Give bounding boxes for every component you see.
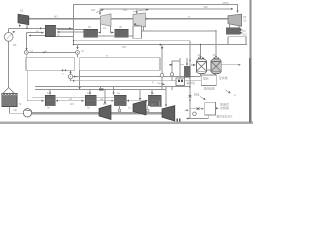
pump P1 [23, 109, 31, 117]
vessel V2 [211, 59, 221, 74]
leader arrows right cluster [225, 90, 231, 94]
wire vessel legs [200, 74, 202, 77]
wire T3 inlet drop [136, 9, 138, 14]
wire vertical x162 [161, 45, 163, 90]
svg-text:W2: W2 [91, 8, 96, 12]
wire rect A bottom to C3 [70, 70, 72, 74]
small node P3 [193, 112, 197, 116]
wire V2 out right [221, 64, 240, 66]
wire into C1 from heater lines [26, 33, 28, 50]
small node under H6 [146, 109, 149, 112]
wire drop to C2 [77, 45, 79, 50]
vessel V1 [196, 59, 206, 74]
wire T6 inlet drop [139, 90, 141, 101]
wire B3 out right [216, 107, 219, 109]
wire C2 to tank B [77, 54, 79, 57]
arrow into x190 area [185, 109, 189, 111]
wire second top line L2 [100, 8, 233, 10]
svg-text:bfp: bfp [14, 109, 18, 112]
wire H3 to R1 [128, 35, 133, 37]
valve mark on x172 [170, 64, 172, 65]
wire H1 right drain corner [56, 36, 74, 38]
svg-text:3H: 3H [119, 26, 122, 29]
svg-text:w: w [188, 15, 190, 18]
svg-text:1B: 1B [13, 43, 17, 47]
wire bridge pipe [172, 61, 180, 73]
svg-text:循环水泵房A: 循环水泵房A [217, 115, 233, 119]
wire extraction line y31 [142, 30, 217, 32]
svg-text:W1: W1 [54, 15, 58, 18]
boiler circle B1 [4, 33, 13, 42]
leader arrow at boiler [12, 31, 15, 34]
wire condensate y97 [32, 96, 45, 98]
wire heater B inlet drop [89, 90, 91, 95]
heater LP C [114, 95, 126, 106]
vessel V2 top nozzle marks [214, 57, 216, 58]
wire out H1 left lower [29, 35, 45, 37]
turbine T7 [162, 106, 175, 121]
wire C3 down [70, 79, 72, 81]
heater LP B [85, 95, 96, 106]
leader arrow W3 [133, 10, 149, 12]
heater LP A [45, 95, 55, 106]
valve on x190 [189, 95, 192, 97]
small pump on drain line [99, 89, 104, 91]
svg-text:N10: N10 [243, 34, 248, 37]
leader near T7 top [157, 83, 165, 85]
wire H1 right top line [57, 29, 83, 31]
turbine T5 [99, 105, 111, 120]
valve on tank A bottom [62, 69, 66, 71]
svg-text:N1: N1 [20, 9, 24, 13]
heater H2 [84, 29, 98, 37]
small node under H5 [118, 109, 121, 112]
svg-text:输水泵: 输水泵 [187, 81, 196, 85]
wire T2 right drop to H3 [111, 26, 114, 32]
wire boiler riser [8, 28, 10, 32]
wire T2 left drop to H2 [99, 24, 101, 32]
wire H6 inlet drop [151, 90, 153, 95]
arrows out of HX4 [241, 29, 243, 31]
node C2 [76, 51, 80, 55]
svg-text:2H: 2H [88, 26, 91, 29]
wire H1 right mid line [57, 31, 83, 33]
wire stub x172 lower [171, 87, 173, 90]
wire T7 inlet line [150, 106, 162, 108]
wire C1 to tank A [25, 54, 27, 57]
heat exchanger HB [184, 66, 190, 77]
wire V2 top drop [215, 31, 217, 58]
wire T5 inlet drop [104, 90, 106, 104]
wire T1 exhaust drop [19, 24, 21, 27]
HB top inlet arrow [186, 58, 188, 66]
valve before B3 [197, 108, 200, 110]
turbine T4 (BFPT top right) [228, 14, 242, 26]
wire tank outlet [10, 107, 24, 114]
bottom window border bar [0, 121, 253, 124]
tiny glyphs after T7 [176, 118, 178, 121]
wire y80.8 long [71, 80, 202, 82]
svg-text:W6: W6 [122, 46, 126, 49]
box R1 condenser [133, 26, 142, 38]
wire long header y44.6 [74, 44, 248, 46]
arrows at heater sides [41, 100, 44, 102]
wire T4 exhaust drop [238, 26, 240, 28]
pump node on x162 [160, 74, 164, 78]
svg-text:W3: W3 [123, 8, 128, 12]
svg-text:排水: 排水 [194, 93, 200, 97]
wire left downpipe [26, 70, 28, 101]
wire boiler downcomer [8, 41, 10, 88]
wire between vessels [207, 69, 211, 71]
wire vertical x79.6 [79, 70, 81, 89]
wire H2 to H3 drains [98, 35, 115, 37]
wire header y89.6 [35, 89, 166, 91]
wire HB to V1 [191, 64, 196, 66]
heater LP D [148, 95, 161, 106]
wire P2 down [171, 76, 173, 81]
wire T1 stub right [26, 25, 28, 29]
svg-text:加药装置: 加药装置 [204, 86, 215, 90]
wire cold reheat line y28.4 [9, 27, 74, 29]
wire B3 bottom loop [187, 115, 209, 119]
svg-text:3F: 3F [213, 54, 216, 57]
svg-text:W3: W3 [103, 103, 107, 106]
pump P2 [170, 73, 173, 76]
turbine T6 [133, 101, 146, 116]
wire x190 lower [189, 109, 191, 119]
wire header y86.6 [35, 86, 190, 88]
wire T3 left drop into R1 [134, 25, 136, 26]
wire T3 right drop [143, 27, 145, 31]
small box SB1 [176, 78, 185, 86]
wire bridge to HB [180, 64, 184, 66]
svg-text:水箱循: 水箱循 [220, 105, 229, 110]
svg-text:w: w [45, 50, 47, 53]
wire heater A inlet drop [49, 90, 51, 95]
vessel V1 top nozzle marks [198, 57, 200, 58]
wire connector x100.5 [100, 87, 102, 90]
wire into H1 left mid [27, 32, 44, 34]
wire y76.6 [73, 76, 201, 78]
wire between C1 C2 [28, 51, 75, 53]
wire T2 inlet drop [99, 9, 101, 15]
hotwell tank [2, 93, 17, 106]
heat exchanger HX4 under T4 [226, 28, 240, 35]
right window border line [249, 0, 251, 123]
turbine T3 (LP) [133, 13, 145, 27]
box water box B3 [205, 102, 216, 115]
svg-text:至水箱: 至水箱 [219, 76, 228, 80]
box dosing unit [201, 75, 216, 86]
right cluster vertical x190 [189, 41, 191, 109]
box R2 below HX4 [228, 37, 246, 45]
heater H1 [45, 25, 56, 36]
turbine T2 (IP) [100, 14, 111, 26]
node C1 [24, 51, 28, 55]
shaft line bottom [32, 112, 162, 114]
svg-text:加药: 加药 [203, 76, 209, 80]
wire left drop x180 [179, 58, 181, 78]
wire into B3 [190, 108, 204, 110]
heater H3 [115, 29, 128, 37]
wire main steam header [29, 18, 229, 20]
leader arrow W2 [96, 9, 104, 12]
wire V1 top drop [200, 45, 202, 59]
wire drain header y40.8 [74, 40, 191, 42]
wire H5 inlet drop [113, 87, 115, 95]
svg-text:w: w [106, 54, 108, 57]
turbine T1 (HP) [18, 14, 29, 25]
wire T7 inlet drop [165, 87, 167, 107]
node C3 pump [68, 74, 72, 78]
wire condensate y100.7 [27, 101, 160, 107]
svg-text:W4: W4 [70, 103, 74, 106]
svg-text:W5: W5 [204, 5, 209, 9]
funnel into hotwell [3, 88, 14, 94]
wire top steam line L1 [74, 5, 238, 45]
svg-text:P5(t): P5(t) [223, 1, 230, 5]
box condenser A [26, 58, 75, 71]
box condenser B [80, 58, 160, 71]
